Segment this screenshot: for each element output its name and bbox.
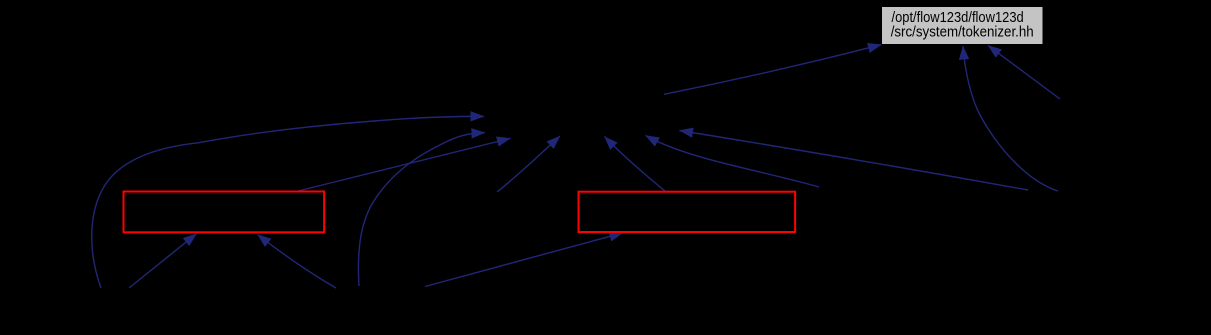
edge: far right node to tokenizer.hh bottom xyxy=(988,46,1060,100)
edge: red box 2 to central node xyxy=(605,137,666,192)
edge: bottom-mid node to red box 2 xyxy=(425,233,623,287)
edge: right mid node curved up to tokenizer.hh bottom xyxy=(963,46,1058,191)
edge: bottom-left node to red box 1 xyxy=(129,234,197,288)
node: red box 2 (truncated dependency) xyxy=(579,192,796,232)
edge: central node to tokenizer.hh (left corner arrow) xyxy=(664,45,882,95)
edge: far right mid node straight to central node xyxy=(680,131,1029,191)
edge: mid invisible node to central node xyxy=(497,136,560,192)
edge: red box 1 to central node xyxy=(298,138,511,191)
edge: bottom-mid node curved to central node xyxy=(358,133,485,286)
edge: right invisible node to central node xyxy=(646,136,820,188)
node: red box 1 (truncated dependency) xyxy=(124,192,325,233)
edge: bottom-mid node to red box 1 xyxy=(258,235,337,289)
node: /opt/flow123d/flow123d/src/system/tokenizer.hh (gray box) xyxy=(882,7,1044,45)
edge: bottom-left node big left curve to central node xyxy=(92,116,484,288)
svg-text:/src/system/tokenizer.hh: /src/system/tokenizer.hh xyxy=(891,24,1034,41)
